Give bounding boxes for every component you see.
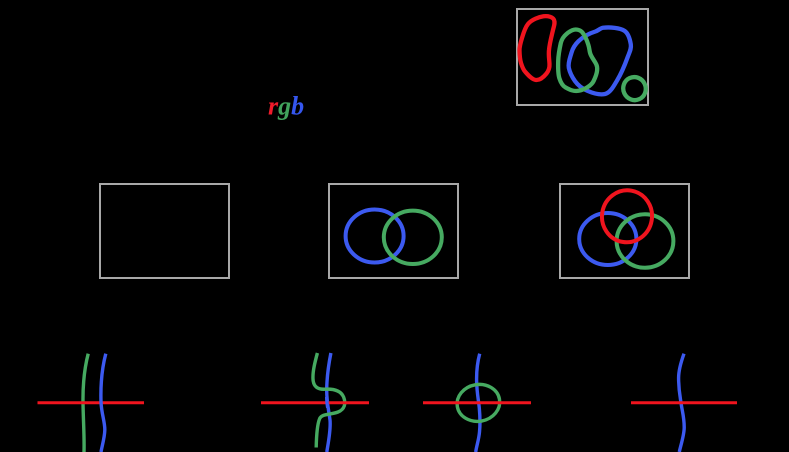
svg-text:rgb: rgb <box>268 92 304 121</box>
